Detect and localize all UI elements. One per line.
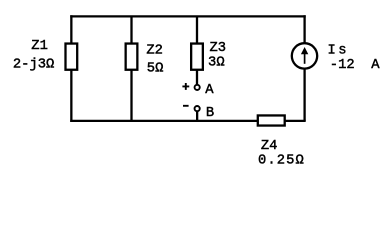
svg-text:Z1: Z1 (31, 39, 48, 54)
svg-text:5Ω: 5Ω (147, 62, 164, 77)
svg-text:B: B (206, 106, 214, 121)
svg-text:Z3: Z3 (210, 41, 227, 56)
svg-text:Z4: Z4 (261, 139, 278, 154)
svg-text:Z2: Z2 (146, 44, 163, 59)
svg-text:A: A (205, 83, 214, 98)
svg-text:-12 A: -12 A (330, 58, 380, 73)
svg-text:Is: Is (328, 43, 350, 58)
svg-text:0.25Ω: 0.25Ω (258, 154, 305, 169)
svg-text:2-j3Ω: 2-j3Ω (13, 57, 54, 73)
svg-text:3Ω: 3Ω (208, 55, 225, 70)
